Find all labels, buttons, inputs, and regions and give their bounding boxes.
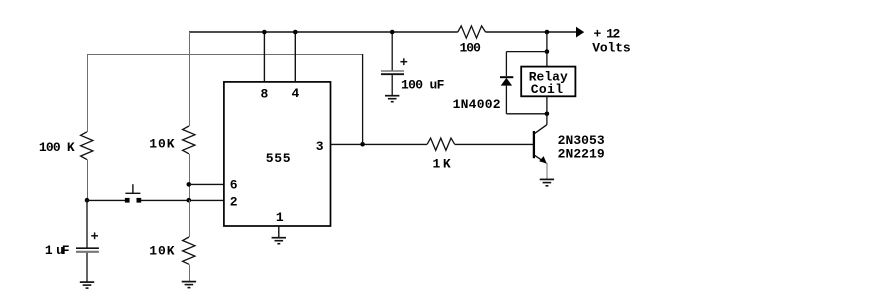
wire 1uF bottom leg [86,253,88,282]
wire diode top link [506,51,547,53]
pushbutton switch contacts [125,198,130,203]
svg-text:6: 6 [230,178,238,193]
ground (pin 1) [272,238,286,244]
svg-text:2: 2 [230,195,238,210]
wire switch left lead [87,199,125,201]
node dot 100uF on rail [390,30,395,35]
node dot pin 6 [187,182,192,187]
node dot junction 100K/switch/1uF [85,198,90,203]
wire upper 10K to pin6 node [189,154,191,200]
svg-text:8: 8 [261,86,269,101]
wire diode cathode leg [505,52,507,76]
transistor Q1 base bar [533,131,535,158]
node dot diode top tee [545,49,550,54]
wire pin 1 stub [278,226,280,237]
resistor 10K lower [183,237,195,264]
wire 100K bottom leg [87,160,89,201]
svg-text:Coil: Coil [531,82,563,97]
pushbutton actuator [125,192,140,194]
relay coil box [521,67,575,97]
ground (100uF) [385,96,399,102]
svg-text:3: 3 [316,139,324,154]
wire relay top stub [546,52,548,67]
resistor 10K upper [183,126,195,154]
svg-text:100 K: 100 K [39,140,75,155]
svg-text:2N2219: 2N2219 [558,146,605,161]
wire relay bottom stub [546,96,548,114]
diode D1 1N4002 [500,76,513,78]
wire diode anode leg [505,86,507,114]
wire 100uF bottom leg [391,75,393,96]
wire diode bottom link [506,113,547,115]
plus sign 1uF [91,235,98,237]
wire lower 10K to ground [189,264,191,281]
svg-text:10K: 10K [149,243,174,258]
svg-text:10K: 10K [149,137,174,152]
node dot collector tee [545,112,550,117]
wire left drop from rail corner down to upper 10K [189,32,191,126]
node dot pin8 on rail [262,30,267,35]
wire pin 4 drop [294,32,296,82]
wire pin2 node down to lower 10K [189,200,191,237]
svg-text:100: 100 [460,41,482,56]
ground (lower 10K) [182,282,196,288]
op IC U1 555 box [224,82,331,226]
node dot pin 2 [187,198,192,203]
wire 100K top leg [87,54,89,132]
transistor Q1 collector diagonal [535,125,547,134]
wire top rail right segment [486,31,577,33]
wire pin 6 [189,183,224,185]
node dot pin4 on rail [293,30,298,35]
capacitor 1 uF plates [76,247,99,249]
wire rail down to relay/diode node [546,32,548,52]
svg-text:4: 4 [292,86,300,101]
plus sign 100uF [400,61,407,63]
wire emitter to ground [546,163,548,179]
wire feedback drop x=363 [362,54,364,144]
svg-text:1N4002: 1N4002 [453,97,501,112]
capacitor 100 uF plates [381,70,404,72]
node dot pin3/feedback [360,142,365,147]
wire top +12V rail left segment [189,31,458,33]
svg-text:1 uF: 1 uF [45,243,70,258]
ground (1uF) [80,282,94,288]
wire 1uF top leg [86,200,88,248]
wire 100uF top leg [391,32,393,71]
resistor 1K [427,138,454,150]
wire 1K to base [455,143,533,145]
wire pin 3 output [331,143,428,145]
svg-text:Volts: Volts [592,40,631,55]
wire collector stub [546,114,548,125]
+12V arrowhead [576,27,584,38]
resistor R1 100 (zigzag in top rail) [458,26,486,38]
ground (emitter) [540,179,554,185]
transistor Q1 emitter arrowhead [539,156,547,163]
wire switch right lead to pin 2 [141,199,224,201]
svg-text:555: 555 [266,151,291,166]
wire second rail (pin3 feedback rail) [87,54,363,56]
svg-text:100 uF: 100 uF [401,77,445,92]
wire pin 8 drop [263,32,265,82]
svg-text:1: 1 [276,210,284,225]
transistor Q1 emitter diagonal [535,155,547,163]
resistor 100 K [81,132,93,160]
node dot +12 / relay top [545,30,550,35]
